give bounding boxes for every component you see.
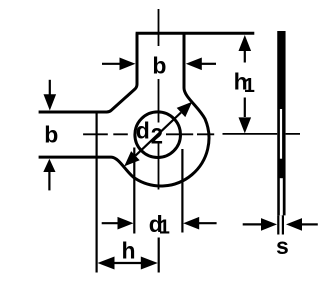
b left dimension bottom arrow (48, 171, 50, 190)
d1 extension line right (181, 149, 183, 233)
svg-text:d: d (136, 117, 150, 143)
svg-text:h: h (121, 238, 135, 264)
svg-text:2: 2 (151, 124, 163, 149)
svg-text:1: 1 (159, 217, 170, 239)
svg-text:b: b (152, 53, 166, 79)
d1 extension line left (133, 148, 135, 234)
h extension line left (95, 114, 97, 273)
top tab top edge (136, 32, 255, 35)
b top dimension left arrow (102, 63, 120, 65)
svg-text:1: 1 (244, 75, 255, 97)
svg-text:s: s (276, 233, 289, 259)
side view plate (277, 31, 285, 215)
s extension lines (278, 215, 283, 234)
svg-text:b: b (44, 122, 58, 148)
b left dimension top arrow (49, 80, 51, 96)
b top dimension right arrow (202, 63, 217, 65)
d1 dimension left arrow (102, 222, 120, 224)
s dimension right arrow (302, 223, 318, 225)
horizontal centerline (83, 133, 214, 135)
d1 dimension right arrow (198, 222, 217, 224)
h1 reference line to side view (223, 133, 301, 135)
side view slit (lower region) (280, 178, 283, 215)
hole d1 circle (135, 112, 181, 158)
h1 dimension line bottom arrow (244, 98, 246, 118)
side view slit (hole region) (280, 109, 282, 159)
h extension line right (158, 238, 160, 273)
h dimension line with outward arrows (112, 262, 143, 264)
washer outer contour (front view) (39, 33, 209, 186)
vertical centerline (158, 9, 160, 190)
s dimension left arrow (243, 223, 262, 225)
h1 dimension line top arrow (244, 50, 246, 63)
d2 diagonal dimension (135, 113, 181, 156)
